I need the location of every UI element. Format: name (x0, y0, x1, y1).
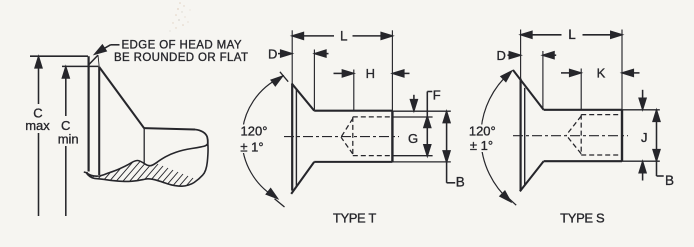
shank top (314, 110, 392, 112)
countersink wall (99, 67, 144, 128)
extension line for K (580, 69, 582, 110)
extension line for D (313, 50, 315, 111)
centerline (513, 135, 628, 137)
dimension F (411, 92, 433, 111)
dimension K (561, 70, 640, 77)
staggered arrows (shank OD) (639, 90, 646, 181)
svg-text:120°: 120° (469, 124, 496, 139)
head edge chamfer (89, 55, 98, 65)
hatching (80, 148, 213, 230)
dimension arrow C max (35, 57, 42, 216)
svg-text:K: K (597, 66, 606, 81)
svg-text:J: J (641, 130, 648, 145)
shank end face (621, 110, 623, 161)
head rim flat line (524, 88, 526, 186)
svg-text:G: G (408, 131, 418, 146)
dimension B (443, 112, 455, 183)
extension line for D (542, 51, 544, 110)
break band left tip (84, 172, 88, 173)
extension line C min (62, 65, 99, 67)
dimension L (521, 31, 622, 38)
label 120 deg (469, 124, 496, 154)
head rim flat line (98, 67, 100, 175)
break band outline (hatched section) (86, 144, 208, 187)
extension line C max (30, 55, 88, 57)
leader to head edge (93, 45, 119, 57)
junction line (143, 128, 145, 163)
dimension D (508, 52, 557, 59)
dimension D (278, 50, 329, 57)
svg-text:D: D (268, 46, 277, 61)
head face line (291, 30, 293, 84)
cone bottom extension piece (508, 197, 517, 205)
angle arc 120 deg (242, 77, 282, 199)
cone top extension piece (280, 72, 288, 82)
svg-text:TYPE S: TYPE S (560, 211, 605, 226)
label patch S (468, 125, 497, 153)
centerline (284, 136, 399, 138)
shank bottom (314, 161, 392, 163)
head face line (520, 30, 522, 79)
svg-text:L: L (568, 27, 576, 42)
svg-text:H: H (366, 66, 375, 81)
svg-text:B: B (456, 175, 465, 190)
right side extension lines (622, 109, 660, 111)
plate surface (144, 128, 195, 129)
svg-text:min: min (58, 131, 79, 146)
label C max (25, 106, 50, 134)
hole hidden outline (341, 117, 392, 156)
cone bottom extension piece (275, 199, 285, 207)
shank top (544, 109, 622, 111)
svg-text:max: max (25, 118, 50, 133)
dimension H (334, 70, 410, 77)
head cone bottom edge (520, 161, 544, 191)
svg-text:B: B (665, 173, 674, 188)
caption TYPE T (333, 210, 377, 225)
svg-text:F: F (433, 87, 441, 102)
head face line (87, 56, 89, 171)
hole hidden outline (566, 115, 622, 155)
svg-text:± 1°: ± 1° (240, 139, 263, 154)
head rim flat line (295, 89, 297, 187)
svg-text:± 1°: ± 1° (470, 138, 493, 153)
dimension L (292, 33, 392, 40)
right side extension lines (392, 110, 450, 112)
svg-text:120°: 120° (241, 124, 268, 139)
svg-text:BE ROUNDED OR FLAT: BE ROUNDED OR FLAT (114, 52, 248, 64)
label patch T (240, 125, 269, 154)
label 120 deg (240, 124, 267, 155)
shank end extension up (621, 30, 623, 110)
dimension arrow C min (62, 67, 69, 216)
head cone top edge (292, 83, 315, 110)
dimension G line (shared with F up arrow) (424, 92, 431, 156)
svg-text:TYPE T: TYPE T (333, 210, 377, 225)
shank end face (391, 111, 393, 162)
plate break edge right curve (195, 130, 208, 144)
angle arc 120 deg (481, 72, 511, 202)
shank bottom (544, 160, 622, 162)
label C min (58, 118, 79, 146)
extension line for H (353, 70, 355, 111)
head cone bottom edge (291, 162, 314, 194)
caption TYPE S (560, 211, 605, 226)
dimension J with B elbow (653, 110, 664, 176)
note text (114, 39, 248, 64)
scan speckles top (169, 2, 190, 31)
svg-text:L: L (340, 28, 348, 43)
svg-text:EDGE OF HEAD MAY: EDGE OF HEAD MAY (122, 39, 242, 51)
svg-text:D: D (497, 48, 506, 63)
head cone top edge (513, 70, 544, 110)
shank end extension up (391, 30, 393, 110)
